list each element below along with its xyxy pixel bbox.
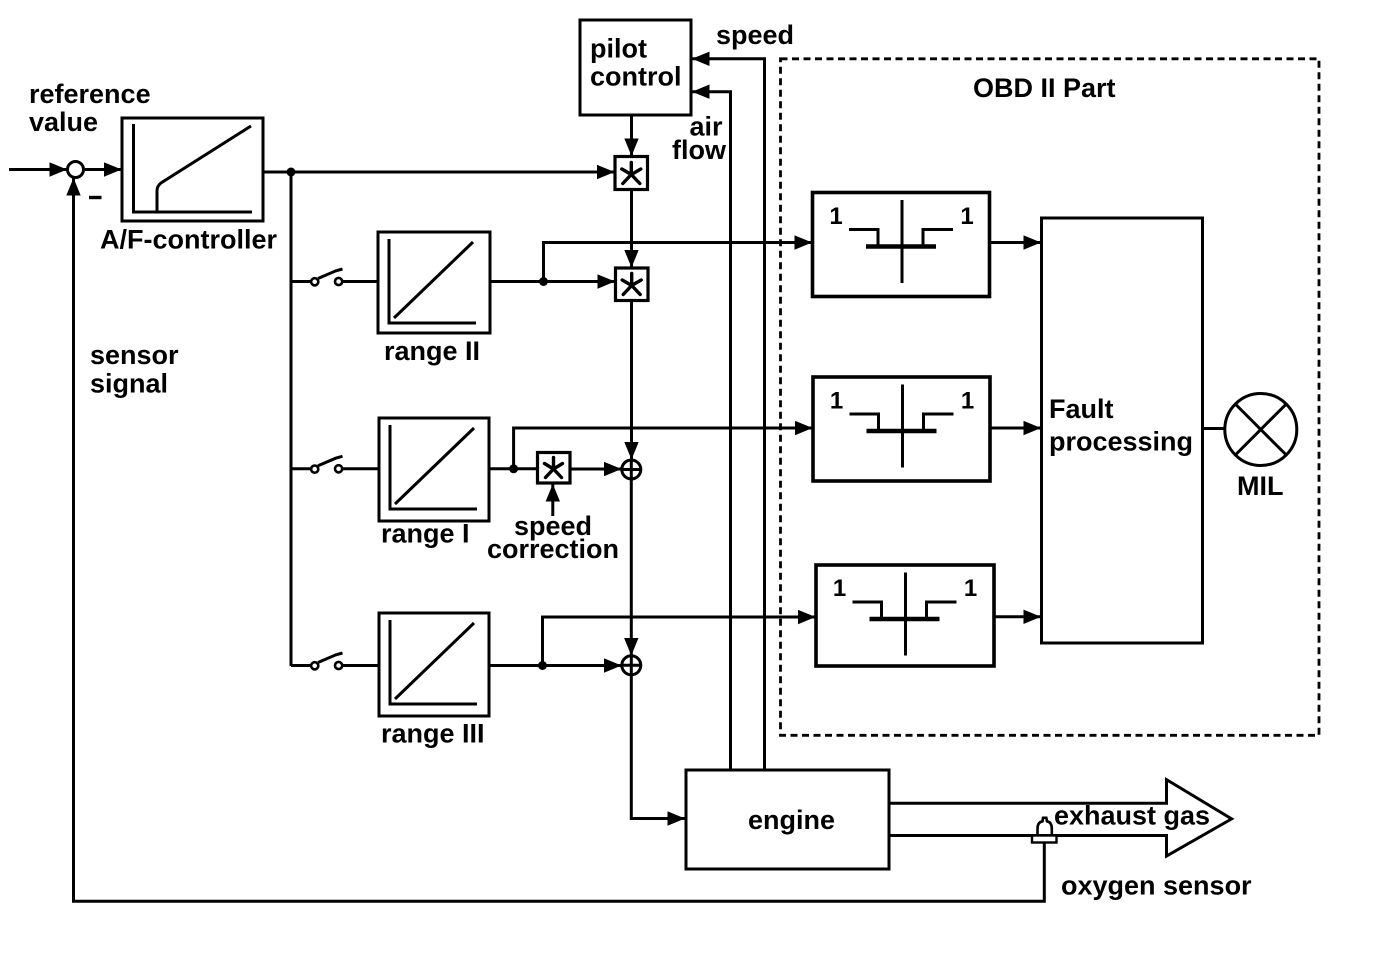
svg-text:control: control xyxy=(590,62,682,92)
svg-text:1: 1 xyxy=(829,203,842,230)
svg-text:oxygen sensor: oxygen sensor xyxy=(1061,871,1252,901)
svg-text:1: 1 xyxy=(960,203,973,230)
svg-text:flow: flow xyxy=(672,135,727,165)
svg-text:engine: engine xyxy=(748,805,835,835)
svg-text:MIL: MIL xyxy=(1237,471,1284,501)
svg-text:range III: range III xyxy=(381,719,485,749)
svg-text:Fault: Fault xyxy=(1049,394,1114,424)
svg-text:range II: range II xyxy=(384,336,480,366)
svg-text:speed: speed xyxy=(716,20,794,50)
svg-text:range I: range I xyxy=(381,519,470,549)
svg-text:1: 1 xyxy=(964,575,977,602)
svg-text:exhaust gas: exhaust gas xyxy=(1054,801,1210,831)
svg-text:1: 1 xyxy=(961,388,974,415)
svg-text:A/F-controller: A/F-controller xyxy=(100,225,277,255)
svg-text:reference: reference xyxy=(29,79,151,109)
svg-text:pilot: pilot xyxy=(590,34,647,64)
svg-text:processing: processing xyxy=(1049,427,1193,457)
svg-text:value: value xyxy=(29,107,98,137)
svg-text:sensor: sensor xyxy=(90,340,179,370)
svg-text:1: 1 xyxy=(833,575,846,602)
svg-text:OBD II Part: OBD II Part xyxy=(973,73,1116,103)
svg-text:1: 1 xyxy=(830,388,843,415)
svg-text:correction: correction xyxy=(487,534,619,564)
svg-text:signal: signal xyxy=(90,369,168,399)
